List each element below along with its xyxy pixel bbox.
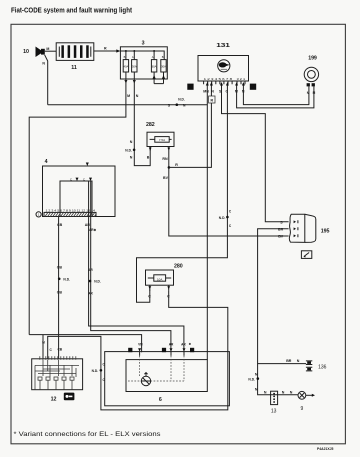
svg-text:10A: 10A	[157, 277, 162, 281]
svg-text:1: 1	[38, 213, 40, 217]
svg-text:C: C	[49, 348, 52, 352]
svg-text:P4A21XJ5: P4A21XJ5	[317, 447, 334, 451]
svg-text:282: 282	[146, 122, 155, 128]
svg-text:4: 4	[45, 159, 48, 165]
svg-text:N.D.: N.D.	[92, 369, 99, 373]
svg-text:3: 3	[142, 41, 145, 47]
svg-text:N: N	[297, 359, 300, 363]
svg-text:AR✱: AR✱	[89, 228, 97, 232]
svg-text:BR: BR	[278, 228, 284, 232]
svg-text:* Variant connections for EL -: * Variant connections for EL - ELX versi…	[14, 432, 161, 438]
svg-text:B: B	[147, 156, 150, 160]
svg-text:CB: CB	[57, 348, 62, 352]
svg-text:N.D.: N.D.	[94, 280, 101, 284]
svg-text:N: N	[183, 104, 186, 108]
svg-text:N.D.: N.D.	[125, 148, 132, 152]
svg-text:CB: CB	[57, 266, 63, 270]
svg-text:N: N	[42, 62, 45, 66]
svg-text:BV: BV	[278, 235, 284, 239]
svg-text:✱: ✱	[189, 342, 192, 346]
svg-text:CB: CB	[57, 291, 63, 295]
svg-text:AR: AR	[88, 268, 93, 272]
svg-text:30A: 30A	[161, 64, 166, 68]
svg-text:M: M	[127, 94, 130, 98]
svg-text:N: N	[290, 390, 293, 394]
svg-text:N: N	[255, 387, 258, 391]
svg-text:CB: CB	[57, 223, 63, 227]
svg-text:M: M	[46, 47, 49, 51]
svg-text:N: N	[42, 341, 45, 345]
svg-text:199: 199	[308, 56, 317, 62]
svg-text:C: C	[229, 224, 232, 228]
svg-text:C: C	[229, 210, 232, 214]
svg-text:12: 12	[51, 396, 57, 402]
svg-text:VN: VN	[138, 343, 143, 347]
svg-text:11: 11	[71, 65, 77, 71]
svg-text:131: 131	[216, 43, 230, 49]
svg-text:N.D.: N.D.	[63, 277, 70, 281]
svg-text:N: N	[282, 390, 285, 394]
svg-text:BR: BR	[286, 359, 292, 363]
svg-text:AR: AR	[181, 343, 186, 347]
svg-text:40A: 40A	[124, 64, 129, 68]
svg-text:10: 10	[23, 49, 29, 55]
svg-text:9: 9	[301, 406, 304, 412]
svg-text:B: B	[162, 55, 164, 59]
svg-text:195: 195	[321, 229, 330, 235]
svg-text:13: 13	[271, 409, 277, 415]
svg-text:N: N	[130, 156, 133, 160]
svg-text:7.5A: 7.5A	[159, 138, 165, 142]
svg-text:MN: MN	[203, 90, 209, 94]
svg-text:A: A	[152, 55, 154, 59]
svg-text:N.D.: N.D.	[219, 216, 226, 220]
svg-text:M: M	[313, 91, 316, 95]
svg-text:AR: AR	[88, 292, 93, 296]
svg-text:N.D.: N.D.	[178, 98, 185, 102]
svg-text:1 2 3 4 5 6 7 8: 1 2 3 4 5 6 7 8	[204, 77, 233, 81]
svg-text:B: B	[124, 55, 126, 59]
svg-text:136: 136	[318, 365, 327, 371]
svg-text:3 2 1: 3 2 1	[237, 77, 246, 81]
svg-text:AR: AR	[169, 343, 174, 347]
svg-text:R: R	[175, 163, 178, 167]
svg-text:N: N	[130, 140, 133, 144]
svg-text:R: R	[210, 99, 213, 103]
svg-text:6: 6	[159, 397, 162, 403]
svg-text:60A: 60A	[152, 64, 157, 68]
svg-text:C: C	[148, 295, 151, 299]
svg-text:30A: 30A	[132, 64, 137, 68]
svg-text:RN: RN	[162, 157, 168, 161]
svg-text:280: 280	[174, 264, 183, 270]
svg-text:N: N	[255, 373, 258, 377]
svg-text:N: N	[136, 94, 139, 98]
svg-text:S: S	[280, 221, 283, 225]
svg-text:AR: AR	[85, 223, 91, 227]
svg-text:N.D.: N.D.	[248, 378, 255, 382]
svg-text:N: N	[264, 390, 267, 394]
svg-text:A: A	[132, 55, 134, 59]
svg-text:Fiat-CODE system and fault war: Fiat-CODE system and fault warning light	[11, 8, 133, 15]
svg-text:BV: BV	[163, 176, 169, 180]
svg-text:R: R	[104, 47, 107, 51]
